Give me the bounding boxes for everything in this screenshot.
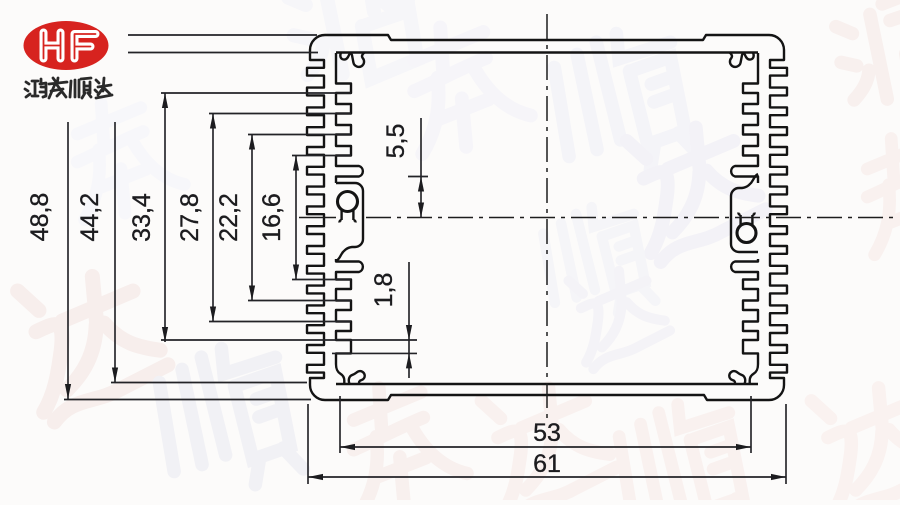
- svg-text:1,8: 1,8: [370, 273, 398, 308]
- svg-text:22,2: 22,2: [215, 193, 243, 242]
- svg-text:5,5: 5,5: [382, 124, 410, 159]
- svg-text:16,6: 16,6: [258, 193, 286, 242]
- svg-text:27,8: 27,8: [176, 193, 204, 242]
- svg-text:33,4: 33,4: [128, 193, 156, 242]
- svg-text:53: 53: [533, 419, 561, 447]
- svg-text:48,8: 48,8: [26, 193, 54, 242]
- svg-text:61: 61: [533, 450, 561, 478]
- svg-text:44,2: 44,2: [76, 193, 104, 242]
